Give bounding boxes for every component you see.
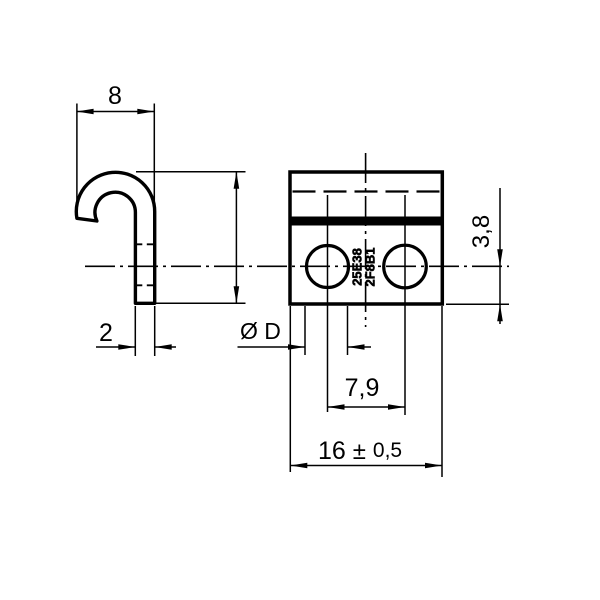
svg-text:Ø D: Ø D — [240, 318, 281, 344]
extension lines dim 8 — [76, 104, 78, 207]
height dimension line (unlabeled) — [235, 172, 237, 303]
hole right — [384, 245, 427, 288]
stem hidden hole edge dashes — [135, 243, 154, 245]
dim 2 extension lines — [134, 306, 136, 356]
svg-text:16 ± 0,5: 16 ± 0,5 — [318, 437, 402, 465]
hole left — [307, 246, 349, 288]
svg-text:2: 2 — [99, 319, 113, 347]
plate front view outline — [290, 172, 442, 304]
svg-text:2F8B1: 2F8B1 — [363, 247, 378, 286]
dim 3,8 line — [499, 188, 501, 324]
dim 7,9 line — [328, 406, 406, 408]
extension line hook bottom — [156, 302, 246, 304]
diameter leader lines + arrows — [238, 346, 306, 348]
horizontal center line — [85, 265, 509, 267]
rubber insert black band — [289, 217, 444, 226]
dimension line 8 — [77, 111, 155, 113]
plate edge extension lines for 16 — [289, 306, 291, 472]
hook side view outline — [76, 172, 154, 303]
vertical center line of plate — [365, 153, 367, 327]
svg-text:8: 8 — [108, 82, 122, 110]
svg-text:7,9: 7,9 — [345, 374, 380, 402]
dim 2 lines + arrows — [96, 346, 135, 348]
dim 16 line — [290, 465, 442, 467]
hole edge extension lines for diameter — [304, 306, 306, 355]
hole center extension lines — [327, 195, 329, 412]
svg-text:3,8: 3,8 — [468, 215, 495, 248]
projection line hook top — [136, 171, 246, 173]
extension line plate bottom right for 3,8 — [446, 303, 509, 305]
hidden edge dashed line — [293, 190, 441, 192]
